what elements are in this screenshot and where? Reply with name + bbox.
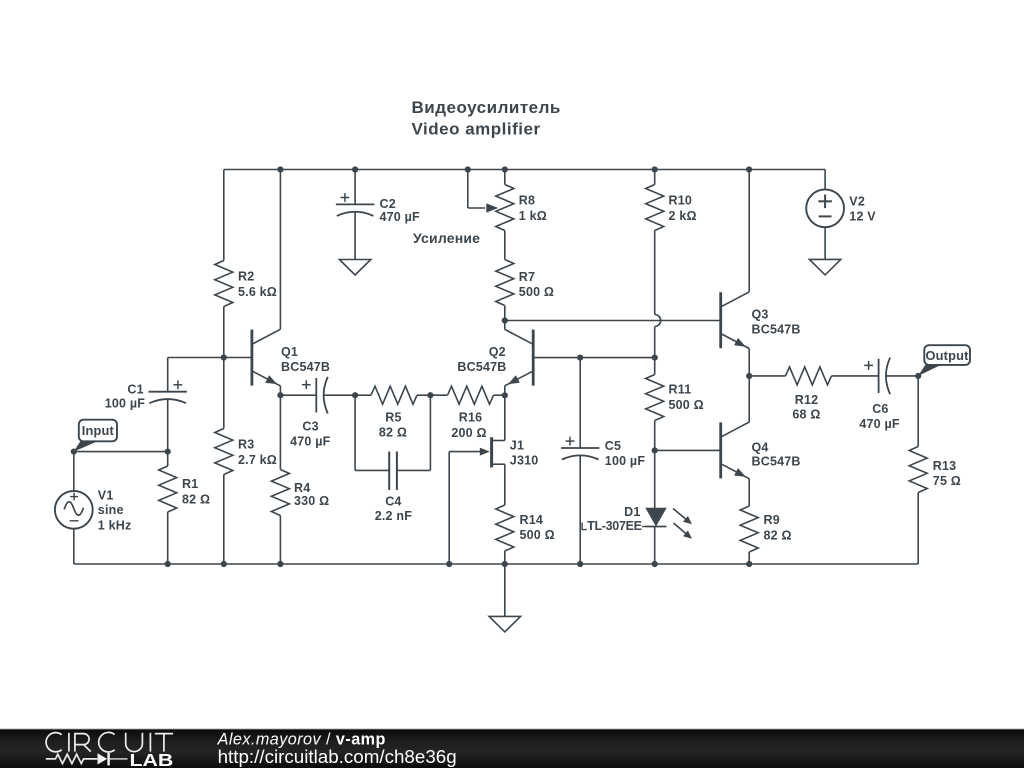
node ground rail dot main — [502, 561, 508, 567]
svg-text:R9: R9 — [764, 513, 780, 527]
wire R10 bottom segment — [654, 231, 656, 315]
wire Q4 base net — [655, 449, 721, 451]
resistor R16 — [448, 386, 494, 440]
svg-text:R5: R5 — [385, 411, 401, 425]
wire R9 bottom lead — [748, 552, 750, 564]
svg-text:BC547B: BC547B — [752, 323, 801, 337]
wire bottom ground rail — [74, 563, 918, 565]
wire C3 right lead — [324, 394, 355, 396]
node R9 ground dot — [746, 561, 752, 567]
CircuitLab logo CIRCUIT — [46, 732, 173, 752]
svg-text:R8: R8 — [519, 194, 535, 208]
node output junction dot — [915, 373, 921, 379]
ground below V2 — [809, 259, 840, 275]
wire J1 source lead — [504, 464, 506, 505]
node ground rail dot R3 — [221, 561, 227, 567]
svg-text:200 Ω: 200 Ω — [451, 426, 486, 440]
svg-text:82 Ω: 82 Ω — [764, 529, 792, 543]
wire J1 drain lead — [504, 395, 506, 440]
svg-text:C3: C3 — [302, 419, 318, 433]
resistor R8 potentiometer — [496, 185, 547, 231]
svg-text:470 µF: 470 µF — [290, 434, 331, 448]
wire R4 top lead — [279, 395, 281, 469]
svg-text:500 Ω: 500 Ω — [520, 528, 555, 542]
svg-text:C5: C5 — [605, 439, 621, 453]
node wiper rail dot — [465, 166, 471, 172]
capacitor C4 — [375, 452, 412, 524]
svg-text:R14: R14 — [520, 513, 544, 527]
node Q2 emitter junction dot — [502, 392, 508, 398]
wire J1 gate net — [449, 452, 481, 564]
wire R10 top lead — [654, 170, 656, 185]
capacitor C3 — [290, 377, 331, 448]
svg-text:12 V: 12 V — [849, 210, 876, 224]
resistor R5 — [371, 386, 417, 440]
wire R16 right lead — [494, 394, 505, 396]
node R7-Q2-Q3 junction dot — [502, 317, 508, 323]
node Q3 collector rail dot — [746, 166, 752, 172]
ground main — [489, 616, 520, 632]
wire R2-R3 segment with base tap — [223, 307, 225, 429]
wire R8 wiper branch — [468, 170, 485, 209]
wire R13 bottom lead — [917, 493, 919, 565]
wire V2 ground lead — [824, 227, 826, 259]
footer author text — [217, 730, 386, 748]
svg-text:C1: C1 — [127, 383, 143, 397]
svg-text:R3: R3 — [238, 438, 254, 452]
resistor R3 — [215, 429, 277, 475]
resistor R10 — [646, 185, 697, 231]
wire R11 top lead — [654, 358, 656, 375]
svg-text:LAB: LAB — [130, 750, 174, 768]
wire hop over mid wire — [655, 315, 661, 327]
node Q1 emitter junction dot — [277, 392, 283, 398]
wire R5 left lead — [355, 394, 371, 396]
svg-text:5.6 kΩ: 5.6 kΩ — [238, 285, 277, 299]
capacitor C2 — [336, 193, 420, 224]
svg-text:470 µF: 470 µF — [380, 210, 421, 224]
capacitor C1 — [105, 380, 187, 410]
transistor Q4 — [721, 422, 801, 479]
svg-text:R16: R16 — [459, 411, 483, 425]
resistor R4 — [271, 470, 329, 516]
wire V2 top lead — [824, 170, 826, 190]
svg-text:500 Ω: 500 Ω — [519, 285, 554, 299]
transistor Q1 — [252, 329, 330, 386]
svg-text:R13: R13 — [933, 459, 957, 473]
wire R1 bottom lead — [167, 512, 169, 564]
wire Q2 collector stub — [504, 321, 506, 330]
node ground rail dot R1 — [165, 561, 171, 567]
ground below C2 — [339, 260, 370, 276]
svg-text:82 Ω: 82 Ω — [182, 493, 210, 507]
source V1 sine — [55, 488, 132, 532]
svg-text:1 kHz: 1 kHz — [98, 518, 132, 532]
svg-text:R11: R11 — [669, 383, 692, 397]
wire R11 bottom lead — [654, 421, 656, 451]
wire mid horizontal to Q3 base — [505, 320, 721, 322]
svg-text:Q1: Q1 — [281, 345, 298, 359]
wire Q4 collector lead — [748, 376, 750, 422]
node C2 rail dot — [352, 166, 358, 172]
wire Q2 emitter lead — [504, 386, 506, 395]
CircuitLab logo LAB — [130, 750, 174, 768]
svg-text:2.2 nF: 2.2 nF — [375, 509, 412, 523]
resistor R9 — [740, 506, 792, 552]
node R11-Q4-D1 junction dot — [652, 447, 658, 453]
resistor R12 — [786, 367, 832, 422]
node ground rail dot J1 gate — [446, 561, 452, 567]
node Input terminal dot — [71, 449, 77, 455]
wire C4 left branch — [355, 395, 389, 470]
svg-text:TL-307EE: TL-307EE — [587, 519, 642, 533]
capacitor C5 — [561, 437, 645, 468]
wire R8-R7 segment — [504, 231, 506, 260]
wire R4 bottom lead — [279, 516, 281, 565]
wire R7 bottom lead — [504, 306, 506, 321]
wire C5 top lead — [579, 358, 581, 448]
footer url text — [218, 746, 457, 767]
wire C2 top lead — [354, 170, 356, 205]
wire R3 bottom lead — [223, 475, 225, 565]
svg-text:470 µF: 470 µF — [859, 417, 900, 431]
node R11 top dot — [652, 355, 658, 361]
svg-text:82 Ω: 82 Ω — [379, 426, 407, 440]
wire main ground stem — [504, 564, 506, 616]
wire R13 top lead — [917, 376, 919, 447]
wire D1 anode lead — [654, 450, 656, 508]
resistor R11 — [646, 375, 704, 421]
svg-text:V2: V2 — [849, 195, 865, 209]
wire R10 to base-net segment — [654, 327, 656, 358]
svg-text:1 kΩ: 1 kΩ — [519, 209, 547, 223]
node input junction dot — [165, 449, 171, 455]
potentiometer wiper arrow — [486, 203, 498, 212]
svg-text:R12: R12 — [795, 393, 819, 407]
svg-text:Video amplifier: Video amplifier — [412, 120, 541, 139]
wire C4 right branch — [397, 395, 431, 470]
svg-text:BC547B: BC547B — [752, 455, 801, 469]
wire Q4 emitter lead — [748, 479, 750, 506]
svg-text:Q4: Q4 — [752, 440, 769, 454]
svg-text:2 kΩ: 2 kΩ — [669, 209, 697, 223]
source V2 12V — [806, 189, 876, 227]
node ground rail dot D1 — [652, 561, 658, 567]
wire Q1 emitter lead — [279, 386, 281, 395]
transistor Q2 — [457, 329, 533, 386]
resistor R1 — [159, 466, 211, 512]
svg-text:Усиление: Усиление — [413, 230, 480, 246]
CircuitLab logo resistor-diode squiggle — [46, 753, 128, 766]
node base junction dot — [221, 354, 227, 360]
wire V1 bottom lead — [73, 529, 75, 564]
node R8 rail dot — [502, 166, 508, 172]
capacitor C6 — [859, 358, 900, 431]
svg-text:500 Ω: 500 Ω — [669, 398, 704, 412]
wire R5 right lead — [417, 394, 430, 396]
wire R14 bottom lead — [504, 551, 506, 564]
svg-text:V1: V1 — [98, 488, 114, 502]
wire R16 left lead — [430, 394, 447, 396]
svg-text:D1: D1 — [624, 505, 640, 519]
svg-text:Видеоусилитель: Видеоусилитель — [412, 98, 561, 117]
svg-text:Q3: Q3 — [752, 308, 769, 322]
svg-text:100 µF: 100 µF — [105, 396, 146, 410]
svg-text:R7: R7 — [519, 270, 535, 284]
svg-text:sine: sine — [98, 503, 124, 517]
transistor J1 JFET — [480, 437, 539, 467]
wire C6-output lead — [887, 375, 919, 377]
svg-text:330 Ω: 330 Ω — [294, 494, 329, 508]
svg-text:J310: J310 — [510, 453, 539, 467]
wire Q1 collector — [279, 170, 281, 330]
svg-text:Input: Input — [82, 423, 115, 438]
flag Input label — [74, 420, 117, 452]
wire C5 bottom lead — [579, 456, 581, 564]
wire R8 top lead — [504, 170, 506, 185]
svg-text:R2: R2 — [238, 270, 254, 284]
footer bar — [0, 728, 1024, 768]
resistor R13 — [909, 447, 961, 493]
node C5 tap dot — [577, 355, 583, 361]
node C3-R5 junction dot — [352, 392, 358, 398]
svg-text:Output: Output — [926, 348, 970, 363]
resistor R2 — [215, 261, 277, 307]
wire input net — [74, 451, 168, 453]
node Q1 collector rail dot — [277, 166, 283, 172]
node ground rail dot C5 — [577, 561, 583, 567]
wire Q2 base net — [533, 357, 655, 359]
node R10 rail dot — [652, 166, 658, 172]
wire R12 left lead — [749, 375, 785, 377]
svg-text:C4: C4 — [385, 495, 401, 509]
svg-text:2.7 kΩ: 2.7 kΩ — [238, 453, 277, 467]
wire D1 cathode lead — [654, 527, 656, 565]
wire top supply rail — [224, 169, 825, 171]
svg-text:BC547B: BC547B — [281, 360, 330, 374]
svg-text:R1: R1 — [182, 477, 198, 491]
wire V1 top lead — [73, 452, 75, 491]
label Усиление — [413, 230, 480, 246]
svg-text:R10: R10 — [669, 194, 693, 208]
wire R2 top lead — [223, 170, 225, 261]
node ground rail dot R4 — [277, 561, 283, 567]
svg-text:68 Ω: 68 Ω — [792, 408, 820, 422]
wire C2 ground lead — [354, 212, 356, 259]
title text — [412, 98, 561, 139]
svg-text:http://circuitlab.com/ch8e36g: http://circuitlab.com/ch8e36g — [218, 746, 457, 767]
wire Q3 emitter lead — [748, 349, 750, 377]
resistor R14 — [496, 505, 555, 551]
wire C1 top lead — [167, 358, 169, 392]
resistor R7 — [496, 260, 554, 306]
node Q3-Q4-R12 junction dot — [746, 373, 752, 379]
diode D1 LED — [582, 505, 692, 539]
svg-text:100 µF: 100 µF — [605, 454, 646, 468]
svg-text:Q2: Q2 — [489, 345, 506, 359]
wire R12-C6 lead — [832, 375, 879, 377]
svg-text:J1: J1 — [510, 439, 524, 453]
wire Q1 base — [168, 357, 252, 359]
svg-text:C6: C6 — [872, 402, 888, 416]
svg-text:BC547B: BC547B — [457, 360, 506, 374]
wire C3 left lead — [280, 394, 316, 396]
wire R1 top lead — [167, 452, 169, 466]
transistor Q3 — [721, 292, 801, 349]
flag Output label — [918, 345, 970, 376]
node R5-R16 junction dot — [427, 392, 433, 398]
wire C1 bottom lead — [167, 400, 169, 452]
svg-text:75 Ω: 75 Ω — [933, 474, 961, 488]
wire Q3 collector — [748, 170, 750, 292]
